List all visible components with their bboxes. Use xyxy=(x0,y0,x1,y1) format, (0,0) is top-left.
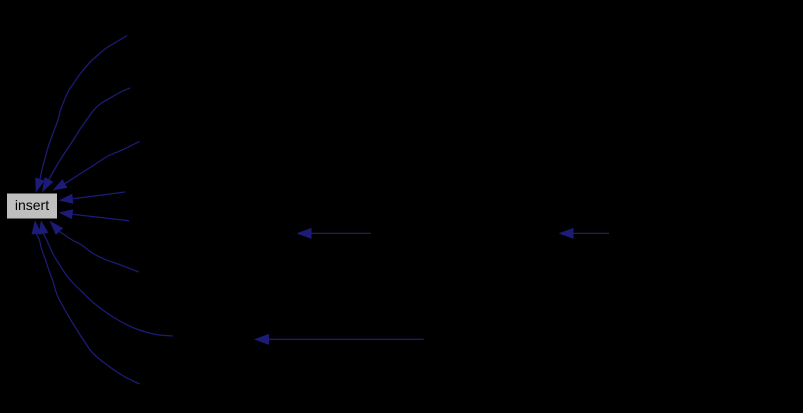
svg-text:insert: insert xyxy=(15,197,49,213)
edge caller1 to insert (top-most curve) xyxy=(40,36,127,180)
edge caller8 to insert (bottom-most curve) xyxy=(37,234,140,384)
arrowhead caller4 xyxy=(59,194,74,204)
wire mid chain arrow upper-right xyxy=(574,232,610,234)
edge caller2 to insert xyxy=(49,88,130,180)
wire mid chain arrow upper-left xyxy=(312,232,372,234)
arrowhead caller6 xyxy=(50,221,64,235)
edge caller6 to insert xyxy=(60,232,139,273)
arrowhead mid chain upper-right xyxy=(559,228,574,239)
edge caller3 to insert xyxy=(65,142,140,184)
arrowhead mid chain upper-left xyxy=(297,228,312,239)
arrowhead caller8 xyxy=(32,220,42,234)
edge caller4 to insert (straight upper) xyxy=(73,192,125,199)
arrowhead caller7 xyxy=(39,220,49,235)
arrowhead caller1 xyxy=(35,178,45,193)
arrowhead caller5 xyxy=(59,209,73,219)
node insert xyxy=(7,193,58,219)
arrowhead lower chain xyxy=(254,334,269,345)
edge caller7 to insert xyxy=(44,234,173,336)
arrowhead caller3 xyxy=(53,179,68,190)
wire lower chain arrow xyxy=(269,338,424,340)
arrowhead caller2 xyxy=(42,177,53,192)
edge caller5 to insert (straight lower) xyxy=(73,214,130,220)
